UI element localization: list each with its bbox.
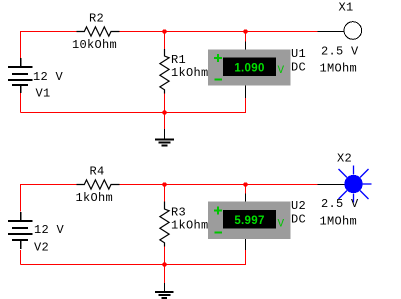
svg-text:1kOhm: 1kOhm	[171, 219, 209, 233]
svg-text:1.090: 1.090	[234, 63, 264, 75]
minus terminal mark U2	[215, 232, 223, 234]
wire: ground stub from bottom rail 2	[164, 265, 166, 284]
minus terminal mark U1	[215, 79, 223, 81]
resistor R1	[160, 49, 169, 94]
wire: V2 top to R4 (left corner, y=184)	[21, 185, 77, 265]
wire: R3 bottom to bottom rail	[164, 247, 166, 265]
svg-text:12 V: 12 V	[33, 70, 64, 84]
svg-text:R1: R1	[171, 53, 186, 67]
junction node F (164.5,264.5)	[162, 262, 166, 266]
wire: U1 top lead to top rail	[245, 32, 247, 42]
svg-text:V1: V1	[36, 87, 51, 101]
svg-text:R4: R4	[90, 165, 105, 179]
svg-text:X1: X1	[339, 1, 354, 15]
wire: node A vertical to R1 top	[164, 32, 166, 50]
battery V2	[8, 212, 33, 249]
svg-text:U2: U2	[291, 199, 306, 213]
svg-text:DC: DC	[291, 213, 306, 227]
svg-text:DC: DC	[291, 61, 306, 75]
wire: U2 top lead to top rail	[245, 185, 247, 194]
svg-text:1kOhm: 1kOhm	[76, 191, 114, 205]
rays of X2	[339, 166, 372, 203]
svg-text:2.5 V: 2.5 V	[321, 45, 359, 59]
voltmeter U2	[208, 194, 291, 251]
svg-text:5.997: 5.997	[234, 215, 264, 227]
svg-text:10kOhm: 10kOhm	[72, 38, 117, 52]
wire: ground stub from bottom rail	[164, 113, 166, 130]
svg-text:R3: R3	[171, 206, 186, 220]
wire: node D vertical to R3 top	[164, 185, 166, 202]
wire: R2 right to X1 lead (top horizontal)	[120, 31, 318, 33]
lead of X2	[318, 184, 346, 186]
plus terminal mark U1	[214, 54, 222, 62]
wire: V1 top to R2 (top-left corner, y=31)	[21, 32, 77, 113]
resistor R4	[77, 180, 120, 189]
voltmeter U1	[208, 42, 291, 99]
probe X2 (lamp, lit)	[318, 166, 372, 203]
junction node C (164.5,112)	[162, 110, 166, 114]
wire: R4 right to X2 lead	[120, 184, 318, 186]
wire: bottom rail V1 to U1 bottom	[21, 98, 246, 113]
wire: bottom rail V2 to U2 bottom	[21, 250, 246, 265]
resistor R2	[77, 27, 120, 36]
junction node E (245.5,184)	[243, 182, 247, 186]
svg-text:2.5 V: 2.5 V	[321, 197, 359, 211]
lamp body X2	[344, 175, 362, 193]
resistor R3	[160, 202, 169, 247]
junction node D (164.5,184)	[162, 182, 166, 186]
junction node B (245.5,31)	[243, 29, 247, 33]
plus terminal mark U2	[214, 207, 222, 215]
svg-text:1MOhm: 1MOhm	[320, 215, 358, 229]
battery V1	[8, 58, 33, 93]
svg-text:U1: U1	[291, 47, 306, 61]
svg-text:V: V	[278, 65, 285, 77]
junction node A (164.5,31)	[162, 29, 166, 33]
svg-text:V: V	[278, 219, 285, 231]
svg-text:1kOhm: 1kOhm	[171, 66, 209, 80]
svg-text:X2: X2	[337, 152, 352, 166]
ground GND2	[155, 283, 174, 298]
svg-text:12 V: 12 V	[34, 223, 65, 237]
probe X1 (lamp, off)	[318, 22, 362, 40]
svg-text:R2: R2	[89, 12, 104, 26]
svg-text:1MOhm: 1MOhm	[320, 62, 358, 76]
svg-text:V2: V2	[34, 241, 49, 255]
ground GND1	[155, 129, 174, 146]
wire: R1 bottom to bottom rail	[164, 94, 166, 113]
